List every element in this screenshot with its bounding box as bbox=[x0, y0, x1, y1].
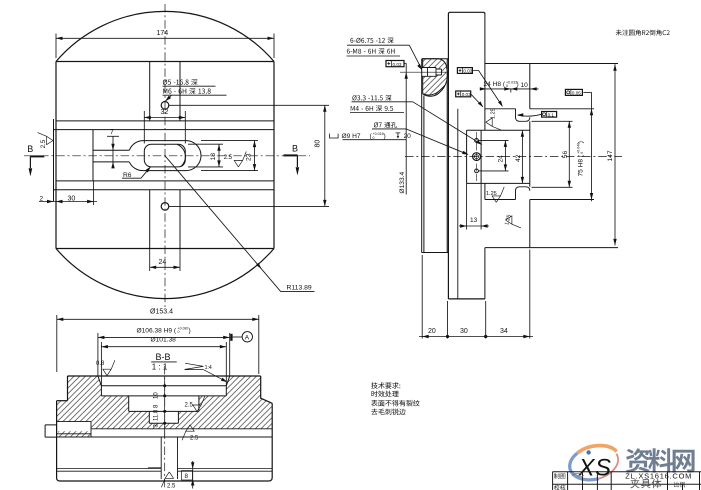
svg-text:20: 20 bbox=[404, 133, 412, 140]
top view top chord line bbox=[56, 61, 274, 63]
svg-text:B-B: B-B bbox=[156, 352, 171, 362]
B-B left tab bbox=[45, 425, 57, 437]
watermark zi liao wang bbox=[626, 448, 695, 473]
tech req line 1 bbox=[371, 382, 400, 389]
logo swoosh blue arc bbox=[567, 450, 599, 485]
text D5 callout bbox=[163, 79, 198, 85]
svg-text:0.03: 0.03 bbox=[393, 62, 402, 67]
svg-text:10: 10 bbox=[154, 392, 160, 399]
svg-text:0.03: 0.03 bbox=[463, 69, 472, 74]
hatch right region bbox=[165, 376, 273, 429]
B-B step left bbox=[57, 400, 68, 402]
text 75H8 rotated bbox=[576, 141, 584, 176]
R113.89 leader bbox=[165, 156, 315, 292]
callout D7 / D9 leaders bbox=[343, 129, 407, 140]
svg-text:0.03: 0.03 bbox=[462, 92, 471, 97]
finish 1.25 a bbox=[486, 118, 501, 130]
hole M4 bottom bbox=[475, 169, 479, 173]
finish 2.5 mid a bbox=[193, 396, 205, 411]
tech req line 3 bbox=[371, 400, 420, 407]
dim 2 / 30 bbox=[39, 201, 97, 203]
M6 hole bottom bbox=[161, 203, 169, 211]
dim 174 bbox=[56, 34, 274, 59]
logo swoosh orange arc bbox=[577, 441, 617, 461]
svg-text:Ø101.38: Ø101.38 bbox=[151, 336, 177, 343]
svg-text:2.5: 2.5 bbox=[167, 483, 176, 489]
central column inner edge x457.4 bbox=[457, 109, 459, 299]
bore bottom wall + groove bbox=[485, 187, 594, 200]
central channel edge right bottom bbox=[179, 190, 181, 249]
dim 18 bbox=[188, 144, 223, 167]
bore top wall + groove bbox=[485, 109, 594, 122]
svg-text:2: 2 bbox=[40, 195, 44, 202]
depth symbol for D9 bbox=[396, 133, 401, 137]
svg-text:B: B bbox=[27, 144, 33, 154]
tolerance frame T2 bbox=[456, 91, 471, 97]
finish 2.5 left edge bbox=[38, 133, 53, 145]
svg-text:2.5: 2.5 bbox=[185, 403, 194, 409]
B-B ring left edge bbox=[67, 376, 69, 401]
svg-text:1.25: 1.25 bbox=[486, 191, 497, 197]
dim 42 right view bbox=[521, 130, 523, 183]
dim 75H8 bbox=[591, 92, 593, 201]
hatch left region bbox=[57, 376, 165, 429]
tolerance frame T1 bbox=[457, 68, 472, 74]
svg-text:2.5: 2.5 bbox=[41, 139, 47, 148]
svg-text:75 H8 (: 75 H8 ( bbox=[577, 154, 584, 176]
svg-text:R6: R6 bbox=[123, 172, 132, 179]
tech req line 4 bbox=[371, 409, 405, 416]
counterbore arc bbox=[177, 144, 185, 166]
tolerance frame T4 bbox=[542, 112, 557, 118]
hole axis line bbox=[476, 132, 478, 181]
top view outline: upper arc bbox=[56, 11, 274, 61]
flange top/bottom + 147 extension bbox=[485, 64, 618, 248]
top view horizontal edge y129.6 bbox=[54, 129, 275, 131]
svg-text:8: 8 bbox=[185, 473, 189, 480]
svg-text:1:4: 1:4 bbox=[205, 365, 212, 371]
hole D7/D9 center bbox=[473, 153, 481, 161]
dim D153.4 bbox=[57, 315, 259, 374]
svg-text:Ø9 H7: Ø9 H7 bbox=[342, 133, 361, 140]
dim 32 bbox=[144, 117, 185, 119]
svg-text:Ø153.4: Ø153.4 bbox=[150, 309, 173, 316]
svg-text:): ) bbox=[517, 81, 519, 88]
svg-text:18: 18 bbox=[210, 153, 217, 161]
finish 1.25 c bbox=[506, 216, 521, 228]
svg-text:23: 23 bbox=[245, 153, 252, 161]
B-B center slot walls bbox=[161, 437, 177, 479]
B-B taper walls bbox=[98, 376, 230, 386]
svg-text:30: 30 bbox=[68, 195, 76, 202]
svg-text:13: 13 bbox=[470, 217, 478, 224]
name scribble bbox=[572, 474, 584, 477]
title block jiaohe bbox=[554, 485, 566, 490]
top view left step edge 2mm bbox=[53, 119, 55, 202]
D-section hatch bbox=[423, 59, 448, 97]
svg-text:0: 0 bbox=[178, 330, 180, 334]
svg-text:20: 20 bbox=[428, 328, 436, 335]
logo swoosh bbox=[566, 441, 622, 485]
title block zhitu bbox=[554, 473, 565, 479]
dims 20/30/34 ext bbox=[422, 250, 530, 339]
dim D101.38 bbox=[101, 342, 226, 386]
svg-text:0: 0 bbox=[506, 84, 508, 88]
dim D106.38H9 + datum A bbox=[98, 333, 230, 376]
counterbore symbol for D9 bbox=[330, 134, 339, 138]
top view horizontal edge y180.9 bbox=[56, 180, 274, 182]
svg-text:Ø133.4: Ø133.4 bbox=[399, 172, 406, 194]
svg-text:Ø106.38 H9 (: Ø106.38 H9 ( bbox=[137, 327, 177, 334]
B-B top surface full bbox=[68, 375, 261, 377]
dim 23 bbox=[201, 141, 258, 171]
D-section hole outline bbox=[422, 68, 442, 77]
disc column left edges bbox=[422, 59, 424, 253]
R6 leader bbox=[122, 167, 151, 178]
svg-text:11.8: 11.8 bbox=[154, 409, 160, 421]
logo dot bbox=[586, 450, 590, 454]
svg-text:174: 174 bbox=[157, 30, 169, 37]
finish 2.5 mid b bbox=[182, 425, 194, 440]
B-B recess floor 1 bbox=[101, 385, 226, 387]
finish 1.25 b bbox=[492, 187, 504, 202]
B-B recess step 4 bbox=[149, 411, 178, 423]
channel lower line bbox=[93, 161, 129, 163]
central column bbox=[448, 12, 485, 299]
dim 147 bbox=[614, 64, 616, 245]
B-B key slot lines bbox=[57, 422, 91, 437]
flange right edge bbox=[529, 64, 531, 248]
svg-text:2.5: 2.5 bbox=[224, 155, 233, 161]
tolerance frame T3 bbox=[565, 89, 582, 95]
disc column right edge bbox=[446, 59, 448, 253]
M6 hole top bbox=[161, 102, 169, 110]
logo swoosh tail arc bbox=[594, 454, 622, 479]
finish 2.5 slot bbox=[234, 152, 246, 167]
B-B recess floor 2 bbox=[101, 395, 226, 397]
central channel edge left top bbox=[149, 62, 151, 121]
top view vertical centerline bbox=[164, 4, 166, 307]
svg-text:32: 32 bbox=[161, 109, 169, 116]
text 6-M8 callout bbox=[347, 48, 395, 54]
svg-text:B: B bbox=[292, 144, 298, 154]
dim 24 right view bbox=[479, 140, 509, 171]
callout D3.3 / M4 leaders bbox=[350, 102, 413, 113]
text M4 callout bbox=[351, 105, 393, 111]
right view horizontal centerline bbox=[405, 156, 622, 158]
finish 2.5 bottom bbox=[161, 472, 173, 487]
svg-text:0: 0 bbox=[373, 136, 375, 140]
svg-text:): ) bbox=[577, 141, 584, 143]
hatch tab sliver bbox=[58, 431, 91, 437]
central channel edge right top bbox=[179, 62, 181, 121]
svg-text:): ) bbox=[384, 133, 386, 140]
B-B bottom edge bbox=[60, 480, 269, 482]
top view horizontal centerline bbox=[24, 155, 310, 157]
svg-text:R113.89: R113.89 bbox=[287, 285, 312, 292]
channel upper line bbox=[93, 149, 129, 151]
dim 80 bbox=[324, 105, 326, 206]
top view horizontal edge y189.7 bbox=[54, 189, 275, 191]
B-B line y437 bbox=[57, 436, 273, 438]
B-B recess step 3 bbox=[129, 396, 199, 412]
B-B hatch bottom line bbox=[91, 428, 272, 430]
text 6-D6.75 callout bbox=[350, 37, 393, 43]
title block lines bbox=[553, 472, 701, 485]
svg-text:147: 147 bbox=[607, 150, 614, 161]
pocket walls bbox=[467, 130, 482, 183]
svg-text:2.5: 2.5 bbox=[190, 436, 199, 442]
svg-text:0.05: 0.05 bbox=[572, 91, 581, 96]
pocket top/bottom bbox=[467, 130, 530, 183]
disc column top/bottom bbox=[422, 59, 449, 253]
dim 13 bbox=[467, 183, 482, 229]
svg-text:0.8: 0.8 bbox=[96, 361, 105, 367]
D-section bottom crescent bbox=[423, 86, 445, 96]
svg-text:24 H8 (: 24 H8 ( bbox=[484, 81, 506, 88]
80-dim extension through bottom hole bbox=[169, 205, 329, 207]
inner slot rounded rect bbox=[144, 144, 185, 167]
B-B center slot notch bbox=[148, 467, 161, 469]
dim 7 bbox=[112, 136, 114, 167]
B-B disc left edge bbox=[57, 401, 60, 481]
part name jiajuti bbox=[630, 479, 661, 488]
M6 thread callout leader bbox=[163, 86, 227, 101]
section B right mark bbox=[284, 154, 298, 156]
svg-text:1.25: 1.25 bbox=[491, 108, 497, 119]
hole center line y72.2 bbox=[400, 71, 446, 73]
B-B title underline bbox=[151, 361, 177, 363]
svg-text:A: A bbox=[245, 335, 250, 342]
pocket left wall bbox=[92, 130, 94, 181]
finish 0.8 symbol bbox=[103, 360, 115, 375]
dim 24 bottom bbox=[150, 249, 180, 272]
svg-text:0: 0 bbox=[580, 152, 584, 154]
top view outline: left edge bbox=[55, 62, 57, 249]
svg-text:7: 7 bbox=[110, 129, 114, 136]
svg-text:1 : 1: 1 : 1 bbox=[152, 362, 168, 371]
svg-text:24: 24 bbox=[159, 259, 167, 266]
svg-text:10: 10 bbox=[521, 82, 529, 89]
B-B tab hatch top line bbox=[57, 433, 91, 435]
top view bottom chord line bbox=[56, 248, 274, 250]
80-dim extension through top hole bbox=[169, 104, 329, 106]
svg-text:56: 56 bbox=[562, 151, 569, 159]
svg-text:80: 80 bbox=[315, 140, 322, 148]
B-B recess wall x101.4 bbox=[101, 386, 226, 396]
top view horizontal edge y120.9 bbox=[56, 120, 274, 122]
svg-text:0.1: 0.1 bbox=[548, 112, 555, 117]
central channel edge left bottom bbox=[149, 190, 151, 249]
title block bili bbox=[674, 482, 685, 488]
D-section hole band clear bbox=[422, 68, 436, 77]
section B left mark bbox=[30, 155, 44, 157]
dim 8 bottom bbox=[192, 461, 194, 489]
svg-text:34: 34 bbox=[500, 328, 508, 335]
dim 56 bbox=[532, 121, 573, 187]
tolerance frame T0 bbox=[386, 61, 404, 67]
B-B ring right edge + chamfer bbox=[261, 376, 273, 403]
svg-text:30: 30 bbox=[460, 328, 468, 335]
text D7 callout bbox=[374, 122, 397, 128]
tech req line 2 bbox=[372, 391, 399, 398]
svg-text:42: 42 bbox=[515, 154, 522, 162]
D133.4 label line bbox=[405, 63, 407, 194]
outer slot obround bbox=[129, 141, 201, 171]
note unnoted fillets bbox=[616, 30, 670, 36]
svg-text:): ) bbox=[189, 327, 191, 334]
callout 6-D6.75 leaders bbox=[347, 45, 410, 56]
taper 1:4 symbol bbox=[185, 363, 226, 381]
text M6 callout bbox=[163, 88, 211, 94]
dim 24H8 / 10 bbox=[486, 88, 539, 90]
B-B vertical centerline bbox=[164, 366, 166, 489]
top view outline: right edge bbox=[273, 62, 275, 249]
svg-text:24: 24 bbox=[497, 155, 504, 163]
B-B disc right edge bbox=[269, 403, 273, 481]
svg-text:X: X bbox=[578, 454, 596, 481]
top view outline: lower arc bbox=[56, 249, 274, 299]
text D3.3 callout bbox=[352, 95, 391, 101]
B-B lower lines bbox=[57, 469, 273, 472]
central column right edge / flange face bbox=[484, 14, 486, 299]
chain dim dots on centerline bbox=[163, 384, 166, 387]
hole M4 top bbox=[475, 139, 479, 143]
